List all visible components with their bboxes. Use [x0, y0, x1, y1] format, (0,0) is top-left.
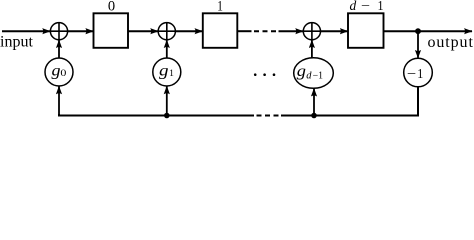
- wire: register d-1 to output: [384, 30, 473, 32]
- wire: junction down to -1 multiplier: [417, 31, 419, 58]
- feedback bus wire (left solid part): [59, 114, 254, 116]
- svg-text:d: d: [350, 0, 357, 13]
- svg-text:1: 1: [217, 0, 223, 15]
- register box d-1: [348, 13, 384, 48]
- wire: g0 up to adder 1: [58, 40, 60, 58]
- wire: input to adder 1: [2, 30, 50, 32]
- wire: bus up to g0: [58, 86, 60, 115]
- wire: adder 2 to register 1: [175, 30, 202, 32]
- svg-text:0: 0: [60, 68, 67, 78]
- wire: adder 3 to register d-1: [321, 30, 348, 32]
- svg-text:input: input: [0, 34, 33, 51]
- wire: bus up to g1: [166, 86, 168, 115]
- feedback bus wire (right solid part): [281, 115, 418, 117]
- svg-text:−: −: [361, 0, 370, 13]
- wire: -1 multiplier down to feedback bus: [406, 87, 418, 116]
- feedback bus wire (dashed part): [257, 115, 279, 117]
- svg-text:g: g: [297, 63, 306, 80]
- svg-text:0: 0: [108, 0, 115, 15]
- multiplier g0: [45, 58, 73, 86]
- XOR adder U3: [303, 23, 320, 40]
- node: bus junction below gd-1: [311, 113, 317, 119]
- svg-text:−1: −1: [313, 70, 323, 81]
- wire: dashed continuation (top): [254, 30, 276, 32]
- XOR adder U2: [158, 23, 175, 40]
- svg-text:output: output: [428, 34, 474, 51]
- svg-text:g: g: [52, 62, 61, 79]
- svg-text:1: 1: [378, 0, 384, 13]
- svg-text:1: 1: [417, 67, 423, 82]
- svg-text:d: d: [306, 70, 312, 81]
- register box 0: [94, 13, 129, 48]
- wire: g1 up to adder 2: [166, 40, 168, 58]
- register box 1: [203, 13, 238, 48]
- wire: adder 1 to register 0: [68, 30, 94, 32]
- wire: register 1 towards adder 3 (solid part): [237, 30, 251, 32]
- cdots ellipsis (middle row): [254, 73, 275, 76]
- node: output junction: [415, 28, 421, 34]
- wire: solid into adder 3: [279, 30, 304, 32]
- node: bus junction below g1: [164, 113, 170, 119]
- XOR adder U1: [50, 23, 67, 40]
- wire: bus up to gd-1: [313, 89, 315, 116]
- svg-text:g: g: [159, 62, 169, 79]
- wire: gd-1 up to adder 3: [311, 40, 313, 58]
- multiplier gd-1: [294, 58, 334, 89]
- wire: register 0 to adder 2: [128, 30, 158, 32]
- multiplier g1: [153, 58, 181, 86]
- svg-text:−: −: [407, 67, 416, 82]
- svg-text:1: 1: [169, 68, 174, 78]
- multiplier -1: [404, 58, 433, 87]
